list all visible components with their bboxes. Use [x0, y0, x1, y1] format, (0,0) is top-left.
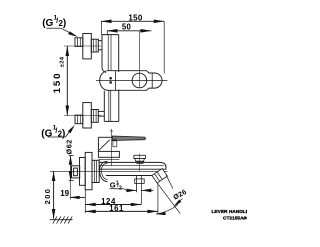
floor reference line	[50, 219, 73, 221]
valve body main tube	[98, 162, 166, 175]
diameter 62 arrow	[69, 156, 74, 181]
svg-text:LEVER HANDLE EXPOSED SHOWER: LEVER HANDLE EXPOSED SHOWER	[212, 209, 248, 215]
top wall union flange	[83, 34, 92, 59]
pill divider right	[151, 73, 153, 88]
extension line nozzle axis	[157, 183, 159, 213]
diameter 26 leader lines	[156, 175, 183, 215]
outlet nozzle angled	[152, 169, 168, 184]
label (G1/2) bottom	[41, 125, 65, 140]
extension line x=85.3	[84, 189, 86, 213]
dimension 200 vertical	[52, 171, 56, 218]
cartridge axis centerline top view	[138, 31, 140, 88]
top view valve body rectangle	[102, 35, 119, 73]
bonnet lines	[98, 158, 119, 160]
bottom union pipe stub	[98, 111, 104, 116]
svg-text:Ø26: Ø26	[172, 189, 188, 202]
svg-text:19: 19	[60, 189, 69, 198]
top view handle pill outline	[100, 71, 162, 91]
svg-text:Ø62: Ø62	[64, 139, 73, 154]
dimension 150 top line	[101, 20, 164, 24]
diverter knob	[134, 154, 146, 172]
svg-text:50: 50	[122, 22, 132, 31]
bottom wall union right nut	[91, 110, 98, 123]
pill divider left	[115, 71, 117, 91]
G1/2 outlet dimension	[126, 189, 153, 193]
handle neck	[98, 137, 112, 152]
svg-text:161: 161	[109, 204, 124, 213]
vertical dimension 150 +-24	[66, 46, 70, 116]
floor hatching	[53, 216, 72, 223]
union nut side view	[92, 160, 99, 182]
leader for top G1/2	[46, 28, 78, 37]
main horizontal centerline top view	[96, 79, 167, 81]
bottom wall union left nut	[75, 115, 83, 124]
screw dot upper	[110, 77, 112, 79]
upper body block	[98, 151, 119, 157]
top view valve body below handle	[104, 90, 119, 122]
extension line right of 150	[163, 21, 165, 73]
G1/2 outlet label	[110, 180, 122, 191]
svg-text:200: 200	[43, 188, 52, 205]
top wall union right nut	[91, 39, 98, 52]
top wall union left nut	[75, 38, 83, 47]
svg-text:G: G	[46, 18, 54, 29]
wall flange side view	[80, 152, 93, 189]
dimension 50 line	[106, 29, 151, 33]
dimension 19	[70, 196, 86, 199]
extension line left of 150	[101, 21, 103, 35]
supply stub square	[72, 166, 80, 178]
top union pipe stub	[98, 41, 102, 50]
svg-text:±24: ±24	[60, 56, 66, 67]
handle joint detail	[113, 139, 117, 147]
body left round end	[100, 161, 108, 181]
cartridge vertical centerline side view	[111, 129, 113, 166]
svg-text:CT2155A#GR: CT2155A#GR	[223, 215, 247, 221]
screw dot lower	[110, 81, 112, 83]
leader for bottom G1/2	[48, 125, 75, 137]
cartridge circle top view	[132, 73, 147, 88]
extension line left of 50	[106, 31, 108, 35]
G1/2 label underline leader	[110, 189, 127, 191]
top wall union: centerline	[64, 45, 101, 47]
dimension 124	[85, 203, 141, 207]
main centerline side view	[50, 170, 168, 172]
svg-text:): )	[62, 128, 65, 139]
svg-text:150: 150	[128, 14, 142, 23]
svg-text:): )	[63, 18, 66, 29]
lever handle blade	[112, 136, 145, 141]
svg-text:150: 150	[52, 72, 63, 93]
shower outlet pipe	[135, 176, 145, 205]
label (G1/2) top	[42, 14, 66, 29]
extension line x=70.7	[70, 181, 72, 200]
dimension 161	[85, 210, 158, 214]
svg-text:G: G	[45, 128, 53, 139]
bottom wall union: centerline	[64, 115, 101, 117]
bottom wall union flange	[83, 103, 92, 128]
